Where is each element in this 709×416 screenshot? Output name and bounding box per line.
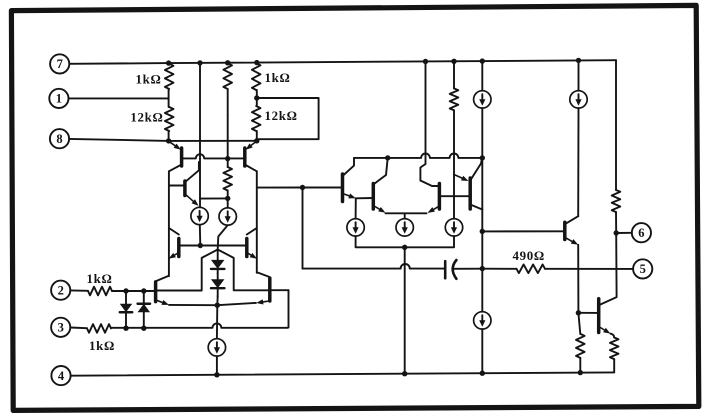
wire I2 top <box>227 198 229 207</box>
wire rail drop res <box>453 61 455 88</box>
wire cap to node <box>453 268 483 270</box>
wire res mid <box>227 89 229 115</box>
wire I5 drop <box>404 247 406 373</box>
transistor Q12 base bar <box>468 178 472 209</box>
wire pin1 to node <box>69 97 169 99</box>
transistor Q8 emitter <box>256 299 269 304</box>
label 1kOhm pin3 <box>89 339 115 353</box>
diode top right arm <box>218 250 269 291</box>
resistor emitter right <box>610 338 619 360</box>
wire Q10 base <box>356 197 374 199</box>
wire res to rail right <box>613 359 615 372</box>
svg-text:12kΩ: 12kΩ <box>130 111 163 125</box>
node dot rail I8 <box>576 58 581 63</box>
transistor Q11 base bar <box>438 184 442 210</box>
transistor Q8 base bar <box>268 278 272 301</box>
transistor Q9 collector <box>343 158 355 176</box>
pin 8 <box>50 129 69 148</box>
transistor Q5 emitter <box>169 253 179 259</box>
wire I5 top <box>404 213 406 218</box>
diode clamp upper <box>211 250 225 274</box>
cs bottoms wire <box>356 236 454 247</box>
label 1kOhm second <box>265 71 291 85</box>
resistor 490 <box>517 265 546 274</box>
node dot pin8 A <box>166 138 171 143</box>
current source I1 <box>191 207 208 224</box>
resistor emitter left <box>576 334 585 358</box>
node dot rail A <box>166 60 171 65</box>
transistor Q2 base bar <box>243 148 247 166</box>
node dots pin3 diodes <box>123 326 146 331</box>
label 1kOhm <box>135 73 161 87</box>
wire Q9 base <box>303 187 343 189</box>
wire res to bases node <box>227 115 229 159</box>
wire res2 to node <box>227 191 229 199</box>
transistor Q12 collector lower <box>470 205 482 210</box>
transistor Q1 collector <box>169 165 182 172</box>
transistor Q6 base bar <box>245 239 249 257</box>
label 12kOhm <box>130 111 163 125</box>
wire rail drop cascode <box>420 62 425 181</box>
wire Q13 base <box>482 230 565 232</box>
transistor Q11 collector <box>420 181 439 187</box>
wire diode string bottom <box>216 296 218 305</box>
stage2 emitters wire <box>386 212 427 214</box>
input bases wire with hump <box>182 154 244 158</box>
wire column 482 <box>481 158 483 312</box>
node dot rail cascode <box>423 59 428 64</box>
pin 6 <box>632 223 651 242</box>
transistor Q10 collector <box>373 158 387 185</box>
wire Q13 emitter drop <box>577 245 579 313</box>
wire pin2 res to base <box>112 290 156 292</box>
node dot 482 comp <box>480 266 485 271</box>
wire left res top <box>578 313 580 334</box>
transistor Q12 collector upper <box>470 158 482 181</box>
current source I2 <box>219 208 236 225</box>
pin 3 <box>51 318 70 337</box>
svg-text:8: 8 <box>56 132 62 146</box>
wire I2 bottom to diode apex <box>218 225 228 249</box>
svg-text:1kΩ: 1kΩ <box>135 73 161 87</box>
wire pin6 <box>616 232 632 234</box>
node dot I7 rail <box>480 371 485 376</box>
node dot res2 <box>225 196 230 201</box>
wire left res bottom <box>579 358 581 373</box>
wire 12k to pin8 wire <box>168 131 170 141</box>
wire bases to res2 <box>227 159 229 167</box>
transistor Q11 emitter <box>428 206 440 213</box>
wire stage1 out <box>257 187 303 189</box>
transistor Q7 base bar <box>154 282 158 302</box>
current source I0 <box>474 91 491 108</box>
wire Q14 emitter curve <box>610 334 614 338</box>
pin 2 <box>51 281 70 300</box>
resistor 12k (pin1 column) <box>165 107 174 131</box>
wire I8 to Q13 <box>577 108 579 216</box>
resistor 1k (second) <box>252 63 261 90</box>
node dot rail I0 <box>480 58 485 63</box>
transistor Q14 collector <box>599 233 617 305</box>
capacitor C1 curved plate <box>453 260 457 279</box>
transistor Q14 base bar <box>597 299 601 333</box>
wire I0 bottom <box>481 108 483 158</box>
node dot stage2 a <box>385 155 390 160</box>
top rail (V+ bus) <box>169 60 616 63</box>
node dot bases <box>225 156 230 161</box>
label 490Ohm <box>513 249 545 263</box>
wire pin2 to res <box>70 289 88 291</box>
wire res drop <box>453 110 455 218</box>
transistor Q13 base bar <box>563 222 567 239</box>
current source I8 <box>570 91 587 108</box>
wire pin3 to res <box>70 327 87 330</box>
node dot pin6 <box>614 230 619 235</box>
wire left column <box>168 171 170 259</box>
node dot I5 rail <box>402 371 407 376</box>
wire rail drop B <box>199 63 201 208</box>
svg-text:1kΩ: 1kΩ <box>265 71 291 85</box>
svg-text:1kΩ: 1kΩ <box>89 339 115 353</box>
node dot 482 base <box>480 229 485 234</box>
wire node A drop <box>302 188 304 269</box>
node dot stage2 b <box>480 155 485 160</box>
wire res to pin6 node <box>615 212 617 233</box>
transistor Q8 base stub <box>271 289 289 291</box>
wire rail right corner <box>615 60 617 190</box>
node dot tail rail <box>214 372 219 377</box>
transistor Q5 collector <box>169 228 179 235</box>
node dot mirror <box>198 243 203 248</box>
svg-text:2: 2 <box>58 284 64 298</box>
current source I3 tail <box>208 339 225 356</box>
pin 5 <box>633 259 652 278</box>
pin 1 <box>49 89 68 108</box>
transistor Q3 emitter <box>186 195 199 206</box>
node dot left res rail <box>578 370 583 375</box>
transistor Q7 collector <box>157 276 169 281</box>
resistor 1k (pin7 column) <box>165 64 174 89</box>
transistor Q9 emitter <box>343 194 356 199</box>
diode D1 down <box>120 291 133 328</box>
resistor collector load <box>612 190 621 212</box>
wire pin7 to top rail <box>69 62 168 65</box>
wire I7 bottom <box>481 329 483 373</box>
resistor center top <box>223 63 232 89</box>
wire res490 to pin5 <box>545 268 633 270</box>
pin 7 <box>50 54 69 73</box>
node dot rail D <box>254 60 259 65</box>
resistor 12k (second) <box>252 106 261 131</box>
node dot rail res <box>451 59 456 64</box>
transistor Q1 base bar <box>180 148 184 166</box>
current source I7 <box>474 312 491 329</box>
transistor Q9 base bar <box>341 174 345 202</box>
wire stage2 top with humps <box>354 153 482 157</box>
wire pin8 to node <box>69 139 169 141</box>
wire tail bottom <box>216 356 218 375</box>
pin 4 <box>51 366 70 385</box>
svg-text:6: 6 <box>638 226 644 240</box>
wire cs pair link <box>200 197 228 199</box>
wire tail top <box>216 305 218 338</box>
wire rail drop I8 <box>578 60 580 90</box>
transistor Q3 base bar <box>183 181 187 196</box>
transistor Q8 collector <box>257 273 269 277</box>
current source I6 <box>445 219 462 236</box>
wire box pin3 riser <box>287 290 289 328</box>
node dot out base <box>576 310 581 315</box>
resistor 1k pin2 <box>88 287 112 296</box>
mirror bases wire <box>179 245 247 247</box>
node dots pin2 diodes <box>123 288 146 293</box>
diode clamp lower <box>211 273 225 296</box>
current source I5 <box>396 219 413 236</box>
transistor Q5 base bar <box>177 239 181 257</box>
transistor Q10 emitter <box>373 206 385 213</box>
transistor Q7 emitter <box>157 300 169 305</box>
transistor Q6 emitter <box>247 253 257 259</box>
wire node to res490 <box>482 268 516 270</box>
wire res junction <box>168 89 170 107</box>
node dot rail C <box>225 60 230 65</box>
capacitor C1 left plate <box>444 261 447 278</box>
wire I1 bottom <box>199 225 202 246</box>
svg-text:7: 7 <box>57 57 63 71</box>
resistor center mid <box>223 167 232 191</box>
transistor Q13 emitter <box>565 237 578 245</box>
node dot rail B <box>197 60 202 65</box>
label 1kOhm pin2 <box>87 272 113 286</box>
svg-text:4: 4 <box>58 369 65 383</box>
svg-text:3: 3 <box>58 321 64 335</box>
diode top left arm <box>157 250 218 291</box>
diode D2 up <box>138 291 151 328</box>
svg-text:1kΩ: 1kΩ <box>87 272 113 286</box>
svg-text:1: 1 <box>56 92 62 106</box>
svg-text:5: 5 <box>640 262 646 276</box>
transistor Q13 collector <box>565 216 578 224</box>
node dot emitters <box>215 303 220 308</box>
transistor Q2 emitter <box>246 141 257 150</box>
wire pin8 cont. <box>169 140 257 142</box>
transistor Q3 base lead <box>169 185 185 187</box>
wire right column <box>256 171 258 272</box>
emitters wire <box>169 303 256 305</box>
wire comp node with hump <box>303 264 446 269</box>
wire Q9 emitter drop <box>355 198 357 218</box>
transistor Q3 collector <box>185 162 199 182</box>
node dot D pin8 <box>254 138 259 143</box>
resistor 1k pin3 <box>87 324 111 333</box>
transistor Q12 emitter <box>454 175 469 182</box>
stage2 bases wire <box>439 195 470 197</box>
wire 12k2 bottom <box>256 131 258 141</box>
node dot A <box>300 185 305 190</box>
label 12kOhm second <box>265 109 298 123</box>
transistor Q10 base bar <box>372 184 376 210</box>
transistor Q14 emitter <box>599 327 611 334</box>
transistor Q1 emitter <box>169 141 181 150</box>
wire 1k2 to box node <box>256 90 258 106</box>
svg-text:12kΩ: 12kΩ <box>265 109 298 123</box>
bottom rail (V- bus) <box>71 372 614 375</box>
transistor Q2 collector <box>245 165 257 172</box>
resistor stage2 <box>450 88 459 110</box>
node dot cs bottoms <box>402 245 407 250</box>
wire feedback box <box>257 98 319 139</box>
node dot box <box>254 95 259 100</box>
wire rail drop I0 <box>481 61 483 91</box>
transistor Q6 collector <box>247 228 257 235</box>
wire pin3 run with hump <box>111 323 287 327</box>
wire Q14 base <box>578 312 598 314</box>
wire left column low <box>168 259 170 276</box>
current source I4 <box>347 219 364 236</box>
svg-text:490Ω: 490Ω <box>513 249 545 263</box>
